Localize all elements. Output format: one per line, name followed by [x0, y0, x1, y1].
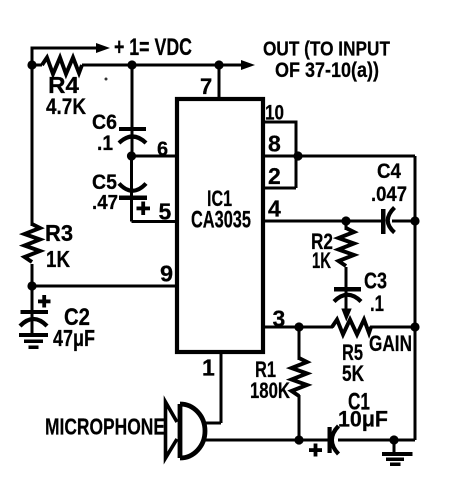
- wire pin 8: [263, 155, 415, 158]
- scan speck: [105, 78, 108, 81]
- polarity plus C1: [309, 444, 322, 457]
- capacitor C6: [119, 127, 146, 143]
- svg-text:7: 7: [200, 74, 212, 99]
- wire R5 to right bus: [370, 326, 415, 329]
- wire left vertical rail to R3: [31, 65, 34, 226]
- arrow OUT: [241, 60, 255, 70]
- svg-text:8: 8: [268, 131, 281, 157]
- node C2 pin9: [27, 281, 36, 290]
- svg-text:1K: 1K: [312, 248, 331, 273]
- node pin7 rail: [214, 60, 223, 69]
- node R5 right: [410, 322, 419, 331]
- resistor R1: [292, 358, 308, 396]
- wire VDC branch corner: [32, 48, 97, 66]
- wire pin 2: [263, 187, 296, 190]
- wire pin 7: [218, 65, 221, 100]
- svg-text:OUT (TO INPUT: OUT (TO INPUT: [263, 38, 390, 61]
- wire pin 9: [32, 285, 177, 288]
- wire mic top terminal: [204, 422, 221, 425]
- svg-text:GAIN: GAIN: [369, 331, 412, 356]
- svg-text:5K: 5K: [342, 361, 365, 386]
- wire R4 left lead: [30, 64, 42, 67]
- resistor R2: [339, 228, 355, 266]
- node pins 10-8-2: [293, 151, 302, 160]
- capacitor C1: [328, 426, 339, 454]
- resistor R4: [42, 58, 82, 75]
- svg-text:+ 1= VDC: + 1= VDC: [114, 34, 192, 61]
- wire R2 top stub: [345, 221, 348, 230]
- polarity plus C5: [137, 202, 151, 216]
- svg-text:C4: C4: [377, 159, 401, 183]
- node ground rail: [389, 435, 398, 444]
- node R4 left: [27, 60, 36, 69]
- node R2 top: [341, 216, 350, 225]
- wire pin 3 to R5: [263, 326, 333, 329]
- svg-text:C3: C3: [364, 268, 387, 294]
- capacitor C3: [334, 287, 361, 302]
- svg-text:C6: C6: [92, 111, 117, 134]
- wire pin 5: [132, 220, 178, 223]
- wire R1 bottom stub: [298, 395, 301, 440]
- wire pin 6: [132, 155, 178, 158]
- wire pin 4 to C4: [263, 220, 382, 223]
- svg-text:.047: .047: [371, 183, 407, 206]
- svg-text:5: 5: [159, 199, 172, 225]
- svg-text:1K: 1K: [46, 246, 70, 272]
- wire C4 to right bus: [392, 220, 415, 223]
- capacitor C4: [381, 208, 395, 235]
- op-amp U1 IC box: [177, 99, 263, 352]
- svg-text:3: 3: [273, 306, 286, 332]
- svg-text:.47: .47: [92, 191, 118, 214]
- potentiometer R5: [332, 320, 371, 335]
- node C6 top: [127, 60, 136, 69]
- svg-text:CA3035: CA3035: [191, 207, 251, 234]
- wire OUT stub: [219, 64, 243, 67]
- resistor R3: [25, 224, 41, 262]
- wire R1 top stub: [298, 327, 301, 360]
- node pin6 C5: [127, 151, 136, 160]
- ground bottom right: [382, 452, 413, 466]
- svg-text:4: 4: [268, 196, 281, 222]
- svg-text:6: 6: [157, 139, 168, 161]
- svg-text:1: 1: [202, 355, 215, 381]
- svg-text:MICROPHONE: MICROPHONE: [45, 414, 165, 440]
- svg-text:47μF: 47μF: [53, 325, 95, 351]
- wiper arrow C3 to R5: [341, 291, 351, 322]
- wire right vertical bus: [414, 156, 417, 440]
- wire R3 to C2 to ground: [31, 264, 34, 334]
- svg-text:180K: 180K: [250, 378, 291, 403]
- svg-text:9: 9: [160, 261, 173, 287]
- svg-text:.1: .1: [370, 291, 384, 316]
- microphone symbol: [166, 402, 206, 458]
- wire bottom rail left of C1: [204, 439, 328, 442]
- wire C6 branch vertical: [131, 65, 134, 156]
- wire bottom rail right of C1: [338, 439, 415, 442]
- polarity plus C2: [38, 295, 51, 308]
- wire R2 to C3: [345, 267, 348, 288]
- svg-text:10: 10: [265, 101, 284, 125]
- svg-text:R3: R3: [45, 220, 73, 246]
- ground below C2: [19, 333, 48, 349]
- node R1 bottom: [294, 435, 303, 444]
- svg-text:10μF: 10μF: [338, 407, 388, 432]
- wire pin 10: [263, 122, 296, 188]
- wire ground stub: [393, 440, 396, 452]
- capacitor C5: [119, 184, 147, 201]
- svg-text:4.7K: 4.7K: [46, 94, 87, 119]
- wire VDC rail segment C6 node to pin7 node: [132, 64, 219, 67]
- wire VDC rail segment R4 to C6 node: [82, 64, 132, 67]
- node pin3 R1: [294, 322, 303, 331]
- svg-text:OF 37-10(a)): OF 37-10(a)): [275, 59, 379, 82]
- svg-text:2: 2: [268, 163, 281, 189]
- capacitor C2: [20, 310, 48, 326]
- arrow VDC: [96, 43, 110, 53]
- wire C5 branch vertical: [130, 156, 133, 222]
- svg-text:.1: .1: [97, 132, 113, 155]
- wire pin 1 vertical: [220, 352, 223, 423]
- node C4 right: [410, 216, 419, 225]
- node junction dots: [27, 60, 419, 444]
